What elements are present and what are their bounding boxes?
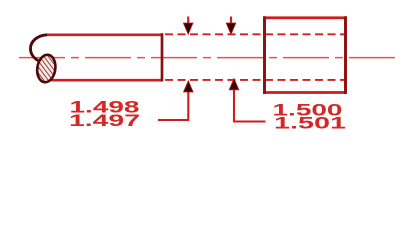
shaft right edge (161, 33, 164, 81)
svg-text:1.497: 1.497 (69, 112, 140, 130)
shaft S-break loop (31, 35, 48, 63)
hub right edge dark (344, 16, 347, 94)
centerline (19, 57, 395, 59)
bottom leader 2 (1.500/1.501) (229, 79, 265, 122)
shaft break ellipse (hatched cross-section) (35, 54, 57, 84)
hub left edge dark (263, 16, 266, 94)
svg-text:1.501: 1.501 (274, 114, 346, 132)
hidden dashed line top (shaft/hole) (165, 33, 344, 35)
bottom leader 1 (1.498/1.497) (158, 81, 193, 120)
hub (hole part) rectangle (265, 18, 346, 93)
top arrow 2 (down) (226, 17, 236, 35)
shaft bottom line (51, 79, 163, 82)
hidden dashed line bottom (shaft/hole) (165, 79, 344, 81)
shaft top line (46, 33, 163, 36)
top arrow 1 (down) (183, 17, 193, 35)
